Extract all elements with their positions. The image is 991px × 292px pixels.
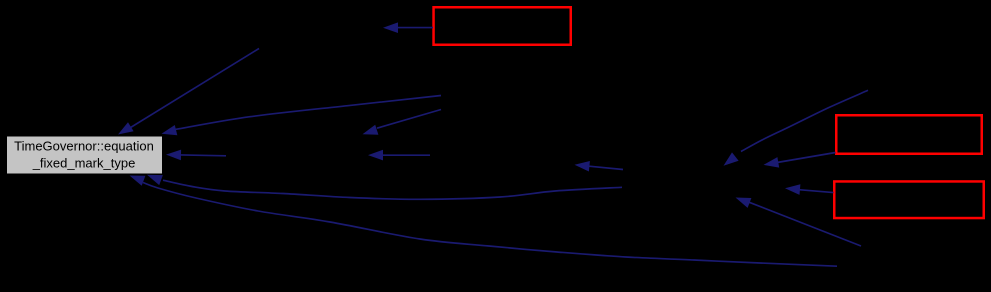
wire edge N4-to-main-upper	[162, 96, 442, 136]
svg-text:TimeGovernor::equation: TimeGovernor::equation	[14, 139, 154, 154]
wire edge N3-to-N2b	[368, 150, 430, 161]
node red-box RB1 (truncated, top middle)	[434, 7, 571, 45]
node red-box RB2 (truncated, right upper)	[836, 115, 982, 154]
wire edge RB2-to-X3	[764, 153, 836, 168]
wire edge X2-to-main-long	[147, 175, 622, 200]
wire edge N1-to-main	[118, 49, 259, 135]
svg-text:_fixed_mark_type: _fixed_mark_type	[32, 156, 136, 171]
node TimeGovernor::equation_fixed_mark_type (current, grey)	[7, 136, 163, 174]
wire edge RB1-to-N1	[383, 22, 433, 33]
wire edge BR1-to-X2	[736, 198, 862, 247]
wire edge N2-to-main	[166, 150, 226, 161]
wire edge RB3-to-X4	[785, 184, 834, 195]
wire edge BR1-to-main-long	[130, 176, 838, 267]
wire edge N4-to-N2a	[363, 110, 442, 135]
wire edge TR-to-X2	[724, 90, 869, 166]
node red-box RB3 (truncated, right lower)	[834, 181, 984, 218]
wire edge X2-to-N3	[575, 161, 624, 172]
